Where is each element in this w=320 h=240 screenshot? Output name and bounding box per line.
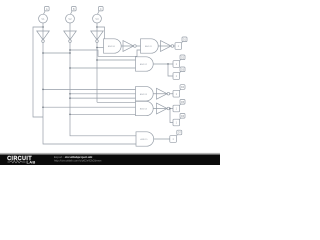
svg-text:AND13: AND13 bbox=[140, 93, 148, 96]
wire NOT1 to AND14 middle input bbox=[43, 106, 136, 108]
voltage source V3 bbox=[93, 14, 102, 23]
output box 5 bbox=[173, 105, 180, 112]
flag label out 5 bbox=[179, 104, 180, 105]
svg-text:AND10: AND10 bbox=[108, 45, 116, 48]
svg-text:AND14: AND14 bbox=[140, 108, 148, 111]
flag label B (input) bbox=[71, 11, 73, 14]
svg-text:AND12: AND12 bbox=[140, 63, 148, 66]
AND gate AND15 bbox=[136, 132, 154, 146]
AND gate AND13 bbox=[136, 87, 154, 101]
NOT gate 7 bbox=[157, 103, 168, 114]
wire NOT2 output bus down to AND15 bbox=[70, 42, 136, 135]
svg-text:http://circuitlab.com/c/p62e92: http://circuitlab.com/c/p62e92k2dswn bbox=[54, 159, 102, 163]
output box 1 bbox=[175, 43, 182, 50]
wire NOT2 to AND13 bottom input bbox=[70, 97, 136, 99]
voltage source V1 bbox=[39, 14, 48, 23]
wire node A down left side bbox=[33, 27, 43, 117]
footer watermark bar bbox=[0, 153, 220, 166]
wire junction down to output box 6 bbox=[170, 109, 173, 123]
wire NOT1 branch to NOT2 column bbox=[43, 52, 70, 54]
AND gate AND14 bbox=[136, 101, 154, 115]
svg-text:V2: V2 bbox=[68, 17, 72, 21]
wire NOT1 to AND13 top input bbox=[43, 88, 136, 90]
svg-text:V3: V3 bbox=[95, 17, 99, 21]
flag label out 3 bbox=[179, 72, 180, 73]
NOT gate 3 (input C, pointing down) bbox=[91, 31, 104, 40]
NOT gate 6 bbox=[157, 88, 168, 99]
output box 3 bbox=[173, 73, 180, 80]
junction on NOT7 output bbox=[169, 108, 171, 110]
voltage source V2 bbox=[66, 14, 75, 23]
flag label out 2 bbox=[179, 60, 180, 61]
svg-text:AND15: AND15 bbox=[140, 138, 148, 141]
flag label out 1 bbox=[181, 42, 182, 43]
output box 7 bbox=[170, 136, 177, 143]
NOT gate 4 bbox=[123, 41, 134, 52]
flag label A (input) bbox=[44, 11, 46, 14]
wire NOT2 to AND13 middle input bbox=[70, 93, 136, 95]
wire AND12 to output box 2 bbox=[153, 63, 173, 65]
output box 6 bbox=[173, 119, 180, 126]
node C junction bbox=[96, 26, 98, 28]
wire V3 to inverter bbox=[96, 23, 98, 40]
flag label out 6 bbox=[179, 118, 180, 119]
wire AND15 to output box 7 bbox=[154, 138, 170, 140]
junction on AND12 output bbox=[167, 63, 169, 65]
wire AND10 to NOT4 input bbox=[121, 45, 140, 47]
svg-text:V1: V1 bbox=[41, 17, 45, 21]
NOT gate 2 (input B, pointing down) bbox=[64, 31, 77, 40]
wire node C to AND1 top input bbox=[97, 27, 105, 39]
AND gate AND10 bbox=[104, 39, 122, 53]
wire NOT1 output bus down to AND15 bbox=[43, 42, 136, 144]
flag label out 7 bbox=[176, 135, 177, 136]
svg-text:C: C bbox=[100, 8, 102, 11]
wire NOT2 to AND12 bottom input bbox=[70, 67, 136, 69]
AND gate AND11 bbox=[141, 39, 159, 53]
wire NOT3 to AND10 bottom input bbox=[97, 47, 104, 49]
wire junction down to output box 3 bbox=[168, 64, 173, 76]
wire NOT3 to AND14 top input bbox=[97, 101, 136, 103]
wire AND14 through NOT7 to output bbox=[153, 108, 173, 110]
NOT gate 1 (input A, pointing down) bbox=[37, 31, 50, 40]
svg-text:LAB: LAB bbox=[27, 160, 36, 165]
svg-text:AND11: AND11 bbox=[145, 45, 153, 48]
wire NOT3 output bus down bbox=[96, 42, 98, 102]
NOT gate 5 bbox=[161, 41, 172, 52]
wire NOT2 to AND11 bottom input (routed under AND10) bbox=[70, 50, 141, 56]
wire V1 to inverter bbox=[42, 23, 44, 40]
node A junction bbox=[42, 26, 44, 28]
flag label out 4 bbox=[179, 89, 180, 90]
flag label C (input) bbox=[98, 11, 100, 14]
wire NOT3 to AND12 top input bbox=[97, 59, 136, 61]
wire AND13 through NOT6 to output bbox=[153, 93, 173, 95]
wire AND11 through NOT5 to output bbox=[158, 45, 175, 47]
wire V2 to inverter bbox=[69, 23, 71, 40]
output box 2 bbox=[173, 61, 180, 68]
wire NOT2 to AND14 bottom input bbox=[70, 113, 136, 115]
output box 4 bbox=[173, 90, 180, 97]
AND gate AND12 bbox=[136, 57, 154, 71]
